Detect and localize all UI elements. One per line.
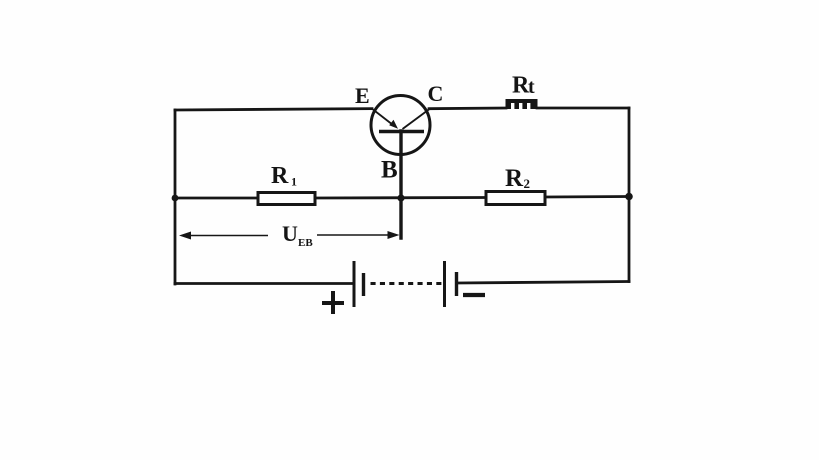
svg-text:E: E [355, 83, 370, 108]
svg-text:R: R [271, 163, 289, 189]
svg-text:1: 1 [291, 175, 297, 189]
svg-text:U: U [282, 221, 298, 246]
svg-text:2: 2 [524, 176, 531, 191]
svg-text:B: B [381, 157, 398, 184]
svg-text:C: C [428, 81, 444, 106]
svg-text:EB: EB [298, 237, 313, 249]
svg-text:t: t [528, 76, 535, 98]
svg-text:R: R [505, 165, 524, 192]
